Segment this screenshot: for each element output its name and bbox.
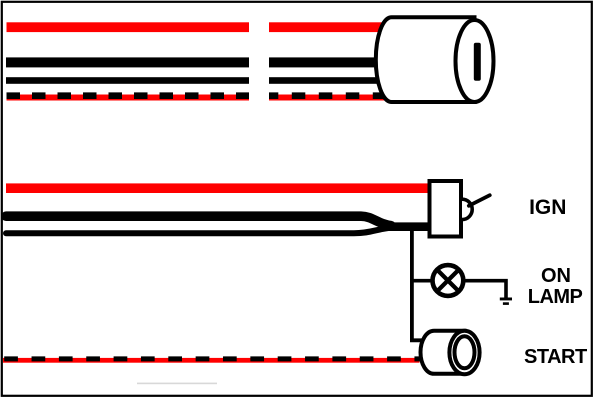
connector face (ellipse) [456, 20, 494, 102]
wire thin black top (left segment) [6, 77, 249, 84]
label START [524, 346, 587, 369]
START pushbutton body [421, 331, 465, 374]
label LAMP [528, 286, 582, 309]
wire merged to IGN switch [383, 222, 431, 231]
connector (cylindrical plug) body [376, 17, 475, 102]
wire dashed red/black top (left segment) [7, 95, 250, 101]
wire black thick middle (merging) [6, 216, 391, 225]
slot on connector face [474, 43, 481, 81]
wire black top (right segment to connector) [269, 57, 382, 67]
wire red top (right segment to connector) [269, 22, 386, 32]
ground symbol [500, 298, 512, 305]
label IGN [529, 196, 566, 220]
START pushbutton face inner ring [455, 336, 475, 368]
IGN switch body [430, 181, 462, 237]
wire black top (left segment) [6, 57, 249, 67]
START pushbutton face outer ring [449, 331, 479, 374]
wire dashed red/black top (right segment to connector) [269, 95, 390, 101]
wire black thin middle (merging) [6, 228, 389, 233]
IGN switch lever [469, 195, 490, 206]
wire from switch down to START [412, 231, 423, 340]
label ON [541, 265, 571, 288]
wire red top (left segment) [7, 22, 250, 32]
indicator lamp (circle with X) [433, 265, 464, 296]
faint artifact line bottom [137, 383, 217, 385]
IGN switch knob (semicircle) [462, 199, 472, 219]
wire red middle [6, 183, 431, 193]
wire thin black top (right segment to connector) [269, 77, 383, 84]
wire branch to lamp [412, 279, 431, 283]
wire dashed red/black bottom [3, 358, 420, 363]
wire lamp to ground [463, 281, 506, 298]
